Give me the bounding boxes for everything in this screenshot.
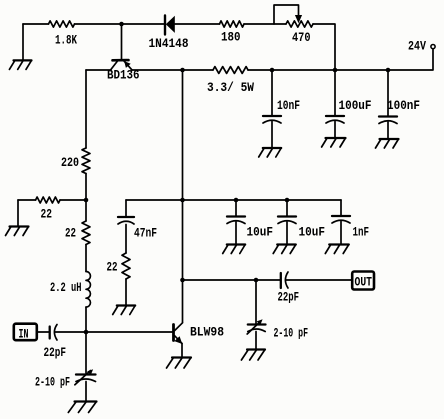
svg-text:IN: IN [19,328,29,342]
svg-text:2-10 pF: 2-10 pF [35,376,70,390]
svg-text:22pF: 22pF [278,291,300,305]
svg-text:1.8K: 1.8K [55,34,77,48]
svg-text:22: 22 [41,208,53,222]
svg-text:180: 180 [221,31,241,45]
svg-text:10nF: 10nF [277,99,300,113]
svg-text:22pF: 22pF [44,346,67,360]
svg-text:24V: 24V [408,40,426,54]
svg-text:OUT: OUT [355,276,373,290]
svg-text:1N4148: 1N4148 [149,37,189,51]
svg-text:10uF: 10uF [247,226,274,240]
svg-text:2-10 pF: 2-10 pF [274,327,309,341]
svg-text:220: 220 [61,156,79,170]
svg-text:1nF: 1nF [353,226,370,240]
svg-text:10uF: 10uF [299,226,326,240]
svg-text:BD136: BD136 [107,69,140,83]
svg-text:22: 22 [107,261,118,275]
svg-text:BLW98: BLW98 [190,326,224,340]
svg-text:22: 22 [65,227,76,241]
svg-text:3.3/ 5W: 3.3/ 5W [207,81,254,95]
svg-text:100nF: 100nF [387,99,420,113]
svg-text:47nF: 47nF [134,227,157,241]
svg-text:2.2 uH: 2.2 uH [50,281,82,295]
svg-text:100uF: 100uF [339,99,372,113]
svg-text:470: 470 [292,31,311,45]
